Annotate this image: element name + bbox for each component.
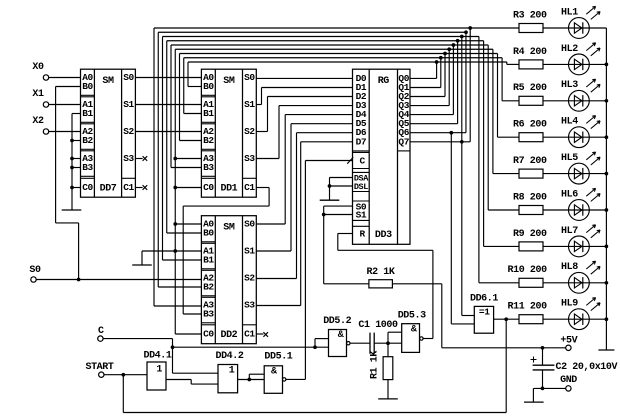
resistor R6 200: [513, 120, 547, 142]
svg-text:R11 200: R11 200: [508, 302, 548, 313]
wire feedback bundle line 1 (top horizontal and left vertical): [154, 28, 519, 306]
wire R9 to HL7 and common rail: [543, 245, 606, 247]
svg-text:DD5.1: DD5.1: [264, 352, 292, 363]
junction on DD3 Q7 line: [460, 140, 464, 144]
junction DD7 C0 tie: [70, 186, 74, 190]
junction on DD3 Q6 line: [449, 131, 453, 135]
wire DD2 S3 to DD3 D7: [256, 142, 352, 306]
svg-text:DD5.2: DD5.2: [323, 316, 351, 327]
junction v6 at DD1 A3: [173, 157, 177, 161]
capacitor C1 1000: [358, 320, 398, 354]
LED HL5: [561, 152, 600, 184]
junction DD7 B2 tie: [70, 139, 74, 143]
input terminal X1: [32, 89, 48, 107]
svg-text:&: &: [338, 330, 344, 341]
wire DD2 S2 to DD3 D6: [256, 133, 352, 279]
logic element DD4.1 (buffer 1): [143, 351, 171, 390]
junction HL7 cathode on common rail: [605, 245, 609, 249]
svg-text:HL4: HL4: [561, 117, 578, 128]
DD7 C1 unconnected stub: [135, 185, 147, 190]
LED HL6: [561, 188, 600, 220]
svg-text:B1: B1: [82, 108, 93, 119]
svg-text:DD3: DD3: [375, 230, 392, 241]
wire DD4.2 output to DD5.1 inputs: [238, 374, 265, 379]
junction bundle line 1 with register output vertical: [468, 26, 472, 30]
junction DD7 B3 tie: [70, 166, 74, 170]
logic element DD5.2 (NAND): [323, 316, 351, 356]
svg-text:R8 200: R8 200: [513, 192, 547, 203]
junction DD6.1 output feedback tap: [504, 317, 508, 321]
resistor R5 200: [513, 83, 547, 105]
junction bundle line 9 with register output vertical: [435, 60, 439, 64]
junction bundle line 6 with register output vertical: [447, 47, 451, 51]
svg-text:S3: S3: [244, 300, 255, 311]
wire GND line: [533, 387, 565, 389]
svg-text:HL2: HL2: [561, 44, 578, 55]
wire bundle v9 to DD1 B0: [188, 86, 201, 88]
svg-text:=1: =1: [479, 307, 490, 318]
logic element DD4.2 (buffer 1): [215, 351, 243, 393]
wire bundle line 5 step-down to resistor row 6: [488, 45, 519, 210]
wire DD3 DSA DSL to ground: [330, 178, 353, 201]
input terminal X0: [32, 62, 48, 80]
svg-text:S0: S0: [244, 219, 255, 230]
svg-text:C0: C0: [82, 182, 93, 193]
wire R4 to HL2 and common rail: [543, 63, 606, 65]
resistor R7 200: [513, 156, 547, 178]
svg-text:S1: S1: [244, 246, 255, 257]
wire DD3 Q5 output to feedback vertical: [410, 41, 458, 124]
wire DD3 Q2 output to feedback vertical: [410, 54, 445, 97]
wire DD1 S3 to DD3 D3: [256, 106, 352, 159]
junction HL9 cathode on common rail: [605, 317, 609, 321]
wire DD2 A1 with ground branch: [142, 251, 201, 265]
wire R5 to HL3 and common rail: [543, 100, 606, 102]
wire R8 to HL6 and common rail: [543, 209, 606, 211]
svg-text:DD7: DD7: [100, 184, 117, 195]
LED HL2: [561, 43, 600, 75]
input terminal X2: [32, 116, 48, 134]
wire DD1 C1 to DD2 B3 (carry cascade): [183, 188, 269, 315]
wire X0 to DD7 input: [49, 77, 81, 79]
wire R11 to HL9 and common rail: [543, 318, 606, 320]
svg-text:C1: C1: [244, 329, 255, 340]
wire DD3 Q4 output to feedback vertical: [410, 45, 453, 115]
wire DD2 S1 to DD3 D5: [256, 124, 352, 251]
LED HL3: [561, 79, 600, 111]
ground symbol at C2: [524, 388, 544, 402]
svg-text:S2: S2: [244, 273, 255, 284]
wire vertical from bundle line 3 down to DD6.1 upper input (Q7 net): [462, 37, 475, 316]
DD5.2 output inversion bubble: [347, 342, 350, 345]
terminal GND: [560, 375, 577, 391]
junction v6 at DD1 C0: [173, 186, 177, 190]
svg-text:C: C: [98, 326, 104, 337]
wire vertical from DD3 Q6 line down to DD6.1 lower input: [451, 133, 474, 324]
input terminal START: [85, 362, 113, 377]
svg-text:GND: GND: [560, 375, 577, 386]
svg-text:C0: C0: [203, 329, 214, 340]
svg-text:HL8: HL8: [561, 262, 578, 273]
svg-text:D7: D7: [356, 136, 367, 147]
wire bundle line 7 step-down to resistor row 4: [498, 54, 520, 138]
junction DSL tie: [328, 184, 332, 188]
svg-text:S3: S3: [244, 153, 255, 164]
wire DD3 Q6 output to feedback vertical: [410, 32, 466, 132]
logic element DD5.3 (NAND): [398, 310, 426, 352]
LED HL9: [561, 298, 600, 330]
svg-text:R5 200: R5 200: [513, 83, 547, 94]
svg-text:B2: B2: [82, 135, 93, 146]
wire feedback bundle line 8 (top horizontal and left vertical): [184, 58, 502, 114]
svg-text:R1 1K: R1 1K: [370, 351, 381, 379]
wire feedback bundle line 7 (top horizontal and left vertical): [180, 54, 498, 141]
junction HL8 cathode on common rail: [605, 281, 609, 285]
wire DD2 S0 to DD3 D4: [256, 115, 352, 224]
wire feedback bundle line 3 (top horizontal and left vertical): [163, 37, 479, 261]
wire R10 to HL8 and common rail: [543, 282, 606, 284]
wire feedback bundle line 9 (top horizontal and left vertical): [188, 62, 507, 87]
wire DD3 Q3 output to feedback vertical: [410, 49, 449, 105]
input terminal C: [98, 326, 104, 341]
junction S1 tie: [322, 213, 326, 217]
adder DD2 (SM) block outline: [201, 216, 256, 344]
svg-text:S1: S1: [244, 99, 255, 110]
wire DD1 S0 to DD3 D0: [256, 77, 352, 79]
DD5.1 output inversion bubble: [283, 378, 286, 381]
wire DD3 Q1 output to feedback vertical: [410, 58, 441, 88]
adder DD1 (SM) block outline: [201, 69, 256, 197]
svg-text:R4 200: R4 200: [513, 47, 547, 58]
svg-text:RG: RG: [378, 76, 390, 87]
wire bundle line 6 step-down to resistor row 5: [493, 49, 519, 173]
svg-text:C0: C0: [203, 182, 214, 193]
svg-text:&: &: [411, 325, 417, 336]
wire bundle line 9 step-down to resistor row 2: [507, 62, 519, 64]
junction bundle line 2 with register output vertical: [464, 30, 468, 34]
svg-text:DD6.1: DD6.1: [470, 293, 498, 304]
junction on S0 line at B0 staircase: [77, 278, 81, 282]
wire DD5.2 output to capacitor C1: [350, 342, 370, 344]
svg-text:S1: S1: [356, 210, 367, 221]
terminal +5V: [560, 335, 577, 350]
wire DD3 Q7 output to feedback vertical: [410, 28, 470, 142]
ground symbol at DD2 A1: [132, 264, 152, 266]
wire DD6.1 output to R11: [494, 318, 519, 320]
junction HL2 cathode on common rail: [605, 63, 609, 67]
ground symbol at DSA DSL: [320, 199, 340, 201]
svg-text:SM: SM: [102, 76, 114, 87]
wire feedback from DD6.1 output to START line (bottom rail): [123, 319, 506, 412]
wire R6 to HL4 and common rail: [543, 136, 606, 138]
wire bundle v8 to DD1 B1: [184, 113, 202, 115]
wire bundle v2 to DD2 B2: [158, 286, 201, 288]
wire bundle line 8 step-down to resistor row 3: [502, 58, 519, 101]
junction DD5.3 tied inputs and R1 tap: [386, 341, 390, 345]
svg-text:HL9: HL9: [561, 299, 578, 310]
DD2 C1 unconnected stub: [256, 332, 268, 337]
wire feedback bundle line 2 (top horizontal and left vertical): [158, 32, 466, 287]
svg-text:B3: B3: [82, 162, 93, 173]
wire DD7 B0 staircase to S0 line: [56, 87, 81, 280]
junction C2 positive tap: [541, 346, 545, 350]
wire bundle v1 to DD2 A3: [154, 305, 201, 307]
svg-text:Q7: Q7: [398, 136, 409, 147]
logic element DD6.1 (XOR =1): [470, 293, 498, 333]
svg-text:C1: C1: [244, 182, 255, 193]
wire C branch to DD5.2 inputs: [173, 339, 329, 348]
wire bundle line 3 step-down to resistor row 8: [479, 37, 519, 283]
DD5.3 output inversion bubble: [420, 337, 423, 340]
resistor R1 1K (vertical): [370, 343, 393, 379]
svg-text:S3: S3: [123, 153, 134, 164]
wire DD7 S0 to DD1 A0: [135, 77, 201, 79]
input terminal S0: [29, 265, 41, 282]
resistor R4 200: [513, 47, 547, 69]
svg-text:R6 200: R6 200: [513, 120, 547, 131]
svg-text:B0: B0: [203, 81, 214, 92]
wire DD4.1 output to DD4.2 lower input: [166, 380, 218, 385]
wire R2 right to +5V rail: [392, 284, 441, 348]
svg-text:S1: S1: [123, 99, 134, 110]
svg-text:R: R: [360, 229, 366, 240]
svg-text:R7 200: R7 200: [513, 156, 547, 167]
wire feedback bundle line 5 (top horizontal and left vertical): [171, 45, 488, 168]
wire DD7 S1 to DD1 A1: [135, 104, 201, 106]
wire DD1 S2 to DD3 D2: [256, 97, 352, 132]
capacitor C2 20,0x10V (electrolytic): [531, 348, 618, 389]
svg-text:S0: S0: [123, 72, 134, 83]
wire S0 input line to DD2 pin A2: [36, 279, 201, 281]
svg-text:B1: B1: [203, 255, 214, 266]
svg-text:C2 20,0x10V: C2 20,0x10V: [556, 362, 618, 373]
wire DD1 S1 to DD3 D1: [256, 88, 352, 105]
junction HL6 cathode on common rail: [605, 208, 609, 212]
wire bundle v7 to DD1 B2: [180, 140, 202, 142]
svg-text:B3: B3: [203, 162, 214, 173]
svg-text:R9 200: R9 200: [513, 229, 547, 240]
LED HL8: [561, 261, 600, 293]
junction C2 negative tap: [541, 387, 545, 391]
svg-text:R10 200: R10 200: [508, 265, 548, 276]
junction HL5 cathode on common rail: [605, 172, 609, 176]
resistor R2 1K: [366, 267, 394, 288]
svg-text:SM: SM: [223, 76, 235, 87]
junction START line with feedback rail: [121, 373, 125, 377]
svg-text:1: 1: [156, 364, 162, 375]
LED HL7: [561, 225, 600, 257]
svg-text:HL6: HL6: [561, 189, 578, 200]
wire C input to clock distribution corner: [103, 339, 218, 374]
svg-text:HL5: HL5: [561, 153, 578, 164]
svg-text:C1 1000: C1 1000: [358, 320, 398, 331]
wire DD7 B1 B2 A3 B3 C0 tie chain to ground: [72, 114, 81, 211]
svg-text:R2 1K: R2 1K: [366, 267, 394, 278]
adder DD7 (SM) block outline: [81, 69, 136, 197]
svg-text:B2: B2: [203, 282, 214, 293]
junction bundle line 8 with register output vertical: [439, 56, 443, 60]
svg-text:DSL: DSL: [354, 182, 368, 192]
junction bundle line 5 with register output vertical: [452, 43, 456, 47]
wire DD3 R line to DD5.3 output: [338, 234, 433, 339]
ground symbol below DD7: [62, 209, 82, 211]
svg-text:X1: X1: [32, 89, 44, 100]
DD7 S3 unconnected stub: [135, 156, 147, 161]
svg-text:B2: B2: [203, 135, 214, 146]
wire feedback bundle line 6 (top horizontal and left vertical): [175, 49, 493, 334]
junction C line branch to DD5.2: [171, 345, 175, 349]
svg-text:DD5.3: DD5.3: [398, 310, 426, 321]
DD3 dynamic-input slash at pin C: [347, 157, 353, 164]
junction bundle line 7 with register output vertical: [443, 52, 447, 56]
wire DD5.1 output to DD3 C (clock line): [286, 161, 353, 380]
junction HL3 cathode on common rail: [605, 99, 609, 103]
svg-text:S2: S2: [244, 126, 255, 137]
wire +5V rail: [442, 347, 566, 349]
wire START to DD4.1 input: [104, 374, 147, 376]
wire X1 to DD7 input: [49, 104, 81, 106]
logic element DD5.1 (NAND): [264, 352, 293, 394]
svg-text:X2: X2: [32, 116, 44, 127]
svg-text:DD2: DD2: [220, 330, 237, 341]
wire bundle line 4 step-down to resistor row 7: [484, 41, 519, 247]
svg-text:R3 200: R3 200: [513, 10, 547, 21]
junction bundle line 3 with register output vertical: [460, 35, 464, 39]
junction bundle line 4 with register output vertical: [456, 39, 460, 43]
svg-text:DD4.2: DD4.2: [215, 351, 243, 362]
wire C1 to DD5.3 inputs: [374, 332, 402, 343]
junction HL4 cathode on common rail: [605, 135, 609, 139]
LED HL4: [561, 116, 600, 148]
svg-text:B3: B3: [203, 309, 214, 320]
wire R7 to HL5 and common rail: [543, 173, 606, 175]
svg-text:DD1: DD1: [220, 184, 237, 195]
wire bundle v3 to DD2 B1: [163, 259, 202, 261]
wire X2 to DD7 input: [49, 131, 81, 133]
wire DD3 Q0 output to feedback vertical: [410, 62, 437, 78]
wire DD3 S0 S1 to R2 left: [324, 206, 369, 284]
svg-text:B1: B1: [203, 108, 214, 119]
svg-text:START: START: [85, 362, 113, 373]
LED HL1: [561, 6, 600, 38]
wire DD7 S2 to DD1 A2: [135, 131, 201, 133]
wire R3 to HL1 and common rail: [543, 27, 606, 29]
wire bundle v4 to DD2 B0: [167, 232, 202, 234]
svg-text:C: C: [360, 156, 366, 167]
LED common cathode rail: [598, 28, 614, 350]
svg-text:SM: SM: [223, 223, 235, 234]
resistor R10 200: [508, 265, 548, 287]
svg-text:HL3: HL3: [561, 80, 578, 91]
wire R1 bottom to ground: [387, 380, 389, 399]
junction v6 at DD2 A0: [173, 222, 177, 226]
wire bundle v5 to DD1 B3: [171, 167, 201, 169]
svg-text:HL1: HL1: [561, 7, 578, 18]
svg-text:B0: B0: [82, 81, 93, 92]
svg-text:HL7: HL7: [561, 226, 578, 237]
junction DD7 A3 tie: [70, 157, 74, 161]
junction DD5.2 tied inputs: [313, 345, 317, 349]
svg-text:DD4.1: DD4.1: [143, 351, 171, 362]
resistor R8 200: [513, 192, 547, 214]
resistor R11 200: [508, 302, 548, 324]
wire bundle v6 taps to DD1 A3, DD1 C0, DD2 A0, DD2 C0: [175, 159, 201, 335]
resistor R3 200: [513, 10, 547, 32]
svg-text:&: &: [271, 366, 277, 377]
svg-text:1: 1: [229, 366, 235, 377]
wire feedback bundle line 4 (top horizontal and left vertical): [167, 41, 484, 233]
junction v6 at DD2 A1: [173, 249, 177, 253]
svg-text:B0: B0: [203, 228, 214, 239]
svg-text:S0: S0: [244, 72, 255, 83]
register DD3 (RG) block outline: [353, 69, 411, 244]
resistor R9 200: [513, 229, 547, 251]
svg-text:X0: X0: [32, 62, 44, 73]
junction DD5.1 tied inputs: [247, 378, 251, 382]
svg-text:S2: S2: [123, 126, 134, 137]
svg-text:C1: C1: [123, 182, 134, 193]
ground symbol below R1: [378, 398, 398, 400]
svg-text:S0: S0: [29, 265, 41, 276]
